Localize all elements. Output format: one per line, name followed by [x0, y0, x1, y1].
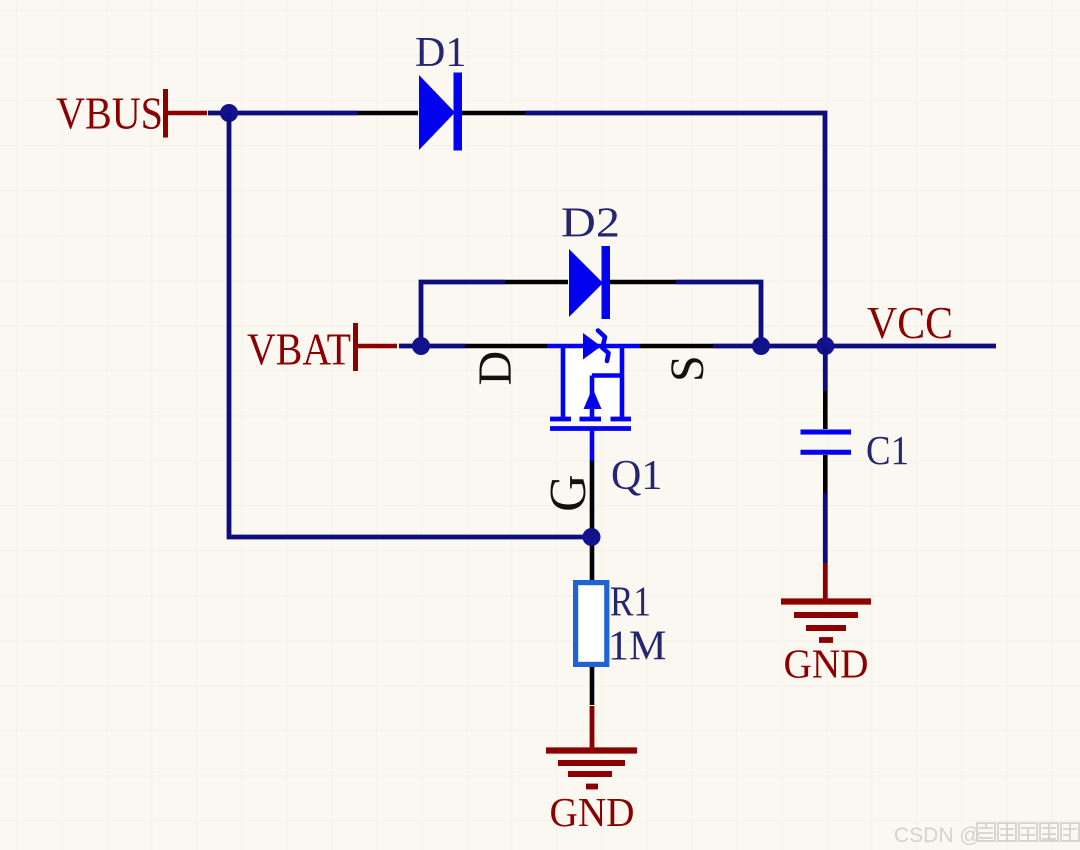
internal source bar	[592, 373, 622, 378]
wire gate pin	[590, 461, 595, 580]
node VBUS junction	[220, 104, 238, 122]
svg-text:CSDN @: CSDN @	[894, 824, 981, 847]
wire VBUS to D1	[208, 111, 358, 116]
diode D1	[358, 30, 525, 151]
ground GND bottom	[546, 706, 637, 835]
svg-text:1M: 1M	[608, 623, 666, 669]
watermark	[894, 823, 1079, 847]
ground GND right	[781, 563, 871, 687]
drain vertical	[561, 346, 566, 419]
pin D	[465, 344, 547, 349]
node gate junction	[583, 528, 601, 546]
node D2-source junction	[752, 337, 770, 355]
svg-text:D2: D2	[561, 201, 620, 247]
svg-text:Q1: Q1	[611, 453, 662, 499]
capacitor C1	[801, 346, 910, 493]
svg-text:VBAT: VBAT	[247, 325, 351, 375]
channel dashes	[550, 417, 571, 422]
gate stub	[590, 429, 595, 462]
svg-text:VCC: VCC	[867, 298, 953, 348]
resistor R1	[576, 579, 667, 705]
body diode	[583, 333, 601, 360]
pin S	[640, 344, 713, 349]
source vertical	[620, 346, 625, 419]
wire D2 bypass left	[421, 282, 505, 346]
wire D1 to top-right corner down to VCC	[525, 113, 825, 346]
svg-text:R1: R1	[610, 579, 651, 625]
svg-text:G: G	[540, 474, 597, 512]
svg-text:C1: C1	[866, 427, 909, 473]
svg-text:GND: GND	[550, 789, 635, 835]
svg-text:VBUS: VBUS	[56, 89, 163, 139]
wire Q1 source to VCC	[713, 344, 996, 349]
svg-text:S: S	[661, 355, 714, 382]
substrate arrow	[590, 376, 595, 420]
body fill	[562, 348, 623, 418]
svg-text:GND: GND	[784, 641, 869, 687]
port VBAT	[247, 323, 397, 375]
body line	[547, 344, 640, 349]
svg-text:D: D	[469, 351, 522, 386]
wire D2 bypass right	[676, 282, 761, 346]
wire VBUS down and right to gate node	[229, 113, 592, 537]
node VBAT junction	[412, 337, 430, 355]
node VCC junction	[816, 337, 834, 355]
svg-text:D1: D1	[415, 30, 466, 76]
wire C1 to GND	[823, 493, 828, 563]
wire VBAT to Q1 drain	[399, 344, 465, 349]
port VBUS	[56, 89, 207, 139]
transistor Q1	[465, 331, 714, 512]
diode D2	[505, 201, 676, 320]
gate bar	[550, 426, 631, 431]
